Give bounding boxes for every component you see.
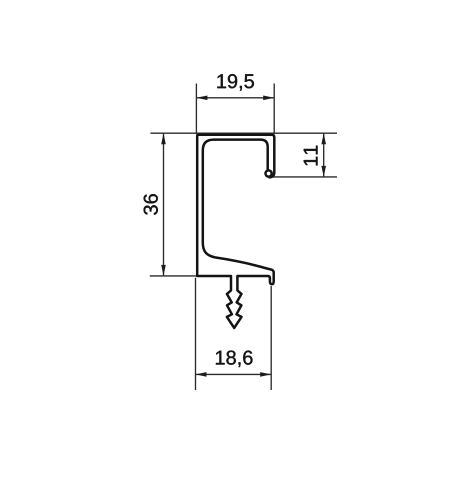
11 bottom extension line — [273, 176, 337, 178]
arrowheads (filled) — [161, 96, 326, 377]
18,6 left arrow — [196, 372, 207, 377]
profile outline (thick) — [197, 135, 274, 328]
19,5 right extension line — [273, 84, 275, 135]
19,5 right arrow — [263, 96, 274, 101]
top horizontal extension line (36 top + 11 top, collinear across profile top) — [150, 132, 337, 134]
18,6 dimension line — [196, 373, 272, 375]
text 11 — [304, 146, 318, 166]
text 18,6 — [216, 351, 253, 368]
11 dimension line — [323, 133, 325, 177]
36 bottom arrow — [161, 265, 166, 276]
11 bottom arrow — [321, 166, 326, 177]
hook curl circle — [266, 170, 272, 176]
11 top arrow — [321, 133, 326, 144]
19,5 dimension line — [196, 97, 274, 99]
text 36 — [144, 194, 158, 215]
19,5 left extension line — [195, 84, 197, 135]
18,6 right extension line — [270, 286, 272, 390]
18,6 left extension line — [195, 278, 197, 390]
36 bottom extension line — [150, 275, 198, 277]
extension lines (thin) — [150, 84, 337, 391]
36 top arrow — [161, 133, 166, 144]
18,6 right arrow — [260, 372, 271, 377]
19,5 left arrow — [196, 96, 207, 101]
text 19,5 — [217, 74, 254, 91]
36 dimension line — [163, 133, 165, 276]
